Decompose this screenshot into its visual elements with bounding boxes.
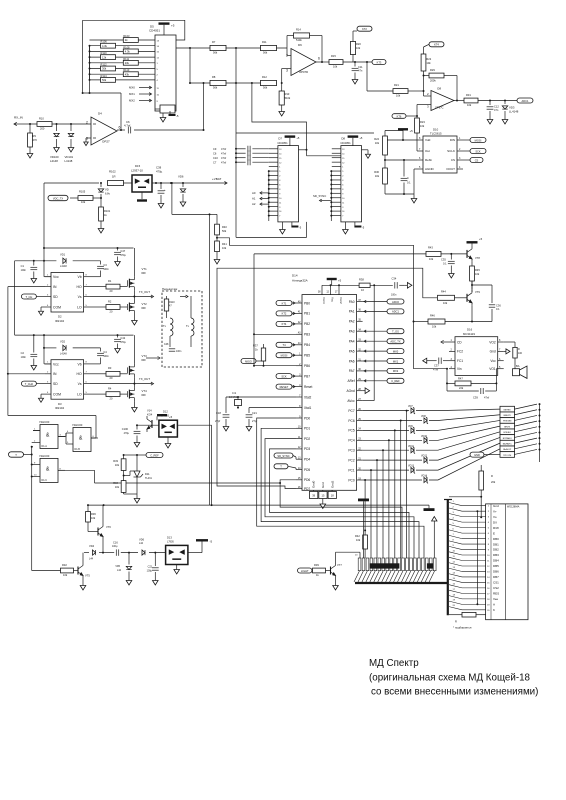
wire ladder common rail: [89, 46, 91, 80]
svg-text:C47: C47: [120, 249, 125, 253]
svg-text:R47: R47: [458, 376, 463, 380]
svg-text:GND: GND: [474, 453, 480, 457]
junction vs: [133, 296, 135, 298]
svg-text:200k: 200k: [430, 79, 436, 83]
capacitor C10 47nf sampling: [213, 155, 269, 161]
svg-text:6.8v: 6.8v: [105, 192, 111, 196]
svg-text:R43: R43: [428, 246, 433, 250]
svg-text:R39: R39: [314, 563, 319, 567]
junctions 5v rail: [87, 504, 213, 506]
node T_CH tag D2: [21, 294, 45, 299]
wire gate input bus: [32, 443, 33, 571]
svg-text:A1: A1: [252, 197, 256, 201]
svg-text:VD: VD: [105, 188, 109, 192]
svg-text:+5: +5: [479, 237, 483, 241]
junction pc VD9: [394, 429, 396, 431]
svg-text:L2937-10: L2937-10: [131, 168, 143, 172]
svg-text:R15: R15: [331, 54, 336, 58]
svg-text:PA5: PA5: [349, 349, 355, 353]
regulator D13 L7905: [166, 535, 188, 564]
svg-text:Cr1: Cr1: [232, 391, 237, 395]
svg-text:C21: C21: [252, 411, 257, 415]
svg-text:VD6: VD6: [178, 174, 184, 178]
junctions at x190: [189, 47, 205, 131]
svg-text:VD8: VD8: [421, 415, 426, 418]
ground D8 pin7: [343, 222, 349, 234]
svg-text:PC1: PC1: [348, 468, 354, 472]
svg-text:ВЫБОР: ВЫБОР: [503, 449, 512, 451]
svg-text:C12: C12: [494, 105, 499, 109]
node RESET tag MCU left: [276, 384, 296, 389]
svg-text:VT6: VT6: [106, 525, 111, 529]
svg-text:56k: 56k: [213, 85, 218, 89]
svg-text:VD14: VD14: [421, 475, 428, 478]
svg-text:IRF: IRF: [142, 358, 147, 362]
regulator D15 L2937-10: [131, 164, 152, 192]
svg-text:D13: D13: [167, 535, 172, 539]
junction pc VD7: [406, 410, 408, 412]
junctions ladder rail: [89, 45, 91, 81]
capacitor C18 27pf: [215, 397, 229, 424]
ground D13: [174, 565, 180, 575]
svg-text:VO2: VO2: [489, 340, 496, 344]
connector X1 pin header: [358, 558, 436, 571]
svg-text:E: E: [493, 531, 495, 535]
svg-text:PA4: PA4: [349, 340, 355, 344]
ground right of C34: [405, 283, 412, 289]
IC D3 IR2104 gate driver: [45, 360, 90, 411]
svg-text:AGND: AGND: [425, 167, 435, 171]
svg-text:VT7: VT7: [337, 563, 342, 567]
svg-text:PB6: PB6: [304, 364, 310, 368]
ground VT4 source: [132, 405, 138, 412]
svg-text:VDC_TX: VDC_TX: [53, 196, 64, 200]
svg-text:MX1: MX1: [129, 92, 135, 96]
wire R12 node to mux link: [252, 83, 307, 150]
junctions xtal: [237, 396, 239, 409]
svg-text:IRF: IRF: [142, 271, 147, 275]
svg-text:R44: R44: [441, 290, 446, 294]
svg-text:ADC0: ADC0: [392, 300, 399, 304]
svg-text:470µ: 470µ: [120, 341, 126, 344]
wire op-amp input net: [30, 123, 91, 125]
svg-text:IRF: IRF: [142, 306, 147, 310]
svg-text:100n: 100n: [176, 350, 182, 353]
svg-text:RESET: RESET: [280, 385, 289, 389]
svg-text:Vcc2: Vcc2: [339, 297, 343, 304]
junction r12 node: [251, 82, 253, 84]
svg-text:+5: +5: [410, 129, 414, 133]
svg-text:OP27: OP27: [102, 140, 110, 144]
inhibit box below D5: [155, 105, 175, 113]
svg-text:D11: D11: [145, 472, 150, 476]
svg-text:МД Спектр: МД Спектр: [369, 658, 419, 669]
svg-text:L44: L44: [117, 569, 122, 572]
svg-text:56k: 56k: [213, 50, 218, 54]
svg-text:ПРОСМ: ПРОСМ: [503, 455, 511, 457]
svg-text:OP97C: OP97C: [435, 105, 444, 109]
svg-text:R: R: [491, 474, 493, 478]
wire rail link left: [15, 261, 134, 335]
junctions sense: [171, 182, 218, 239]
capacitor C16 100u: [112, 540, 119, 555]
resistor R110 12k ladder row 4: [90, 51, 156, 59]
wire divider tap to audio net: [217, 238, 414, 369]
svg-text:R38: R38: [359, 278, 364, 282]
wire R33 R34 tap to D11: [124, 471, 134, 476]
wire PC drop x394.8: [394, 430, 396, 558]
svg-text:1R: 1R: [112, 174, 116, 178]
svg-text:47nf: 47nf: [433, 368, 438, 372]
transistor VT9: [467, 290, 480, 306]
svg-text:PD1: PD1: [304, 427, 310, 431]
svg-text:C2: C2: [21, 351, 25, 355]
wire PC0 drop with R42: [364, 480, 366, 558]
svg-text:VO1: VO1: [489, 367, 496, 371]
svg-text:R102: R102: [109, 169, 116, 173]
svg-text:L4148: L4148: [60, 265, 67, 268]
wire switched supply line: [84, 552, 166, 554]
arrow coupling pair: [180, 295, 188, 298]
node MX1 tag MCU right: [363, 359, 404, 364]
svg-text:C100: C100: [122, 427, 129, 431]
svg-text:PA0: PA0: [349, 300, 355, 304]
svg-text:MX2: MX2: [393, 369, 399, 373]
wire D6 pin3 net: [282, 69, 291, 84]
wire vertical from output to R7/R8: [190, 48, 204, 130]
zener VD13: [408, 465, 415, 474]
svg-text:V14: V14: [147, 409, 152, 413]
capacitor C38 470u: [156, 165, 166, 208]
svg-text:R23: R23: [420, 120, 425, 124]
wire Xtal1 net: [249, 407, 296, 409]
svg-text:20k: 20k: [491, 480, 496, 484]
logic gate D1.C 74HC00 NAND: [33, 454, 65, 482]
node T tag PD5: [274, 464, 296, 470]
node VDC_TX tag: [48, 195, 68, 200]
svg-text:VD6: VD6: [139, 537, 145, 541]
node DIN tag MOSI: [463, 138, 486, 143]
svg-text:R: R: [518, 348, 520, 351]
svg-text:30k: 30k: [102, 67, 107, 71]
junction c1: [33, 260, 35, 262]
svg-text:PD2: PD2: [304, 437, 310, 441]
svg-text:Xtal1: Xtal1: [304, 406, 311, 410]
node ADC_TX tag MCU right: [363, 339, 404, 344]
power +5 bar for D5: [159, 22, 175, 35]
connector buttons keypad: [500, 406, 515, 457]
supply -5 D7 pin8: [291, 222, 301, 230]
svg-text:C42: C42: [120, 336, 125, 340]
svg-text:PD5: PD5: [304, 468, 310, 472]
wire PD bus net y479.8: [280, 480, 402, 558]
diode VD5 L4148 to ground: [115, 553, 131, 585]
wire thick ground bus vertical: [444, 500, 452, 616]
svg-text:ADC_TX: ADC_TX: [390, 340, 401, 344]
svg-text:C_REF: C_REF: [391, 379, 400, 383]
svg-text:R/W: R/W: [493, 526, 499, 530]
wire AVcc branch: [363, 285, 375, 400]
svg-text:D15: D15: [135, 164, 141, 168]
svg-text:SCK: SCK: [281, 374, 287, 378]
diode VD3 LL4148: [502, 101, 518, 118]
svg-text:FC2: FC2: [457, 350, 463, 354]
junctions feedback: [82, 92, 122, 131]
wire O8 pin3 to R23 and DAC out: [417, 105, 431, 152]
node tag at R37 bottom: [241, 359, 264, 364]
junction pin3: [281, 82, 283, 84]
resistor R4 20 gate: [90, 387, 127, 401]
resistor R36 10k: [86, 505, 97, 531]
svg-text:A: A: [493, 603, 495, 607]
power bar near MCU bottom: [358, 499, 369, 559]
svg-text:TLC5615: TLC5615: [430, 132, 442, 136]
svg-text:74HC00: 74HC00: [72, 423, 83, 427]
supply -5 D8 pin8: [354, 222, 364, 230]
svg-text:43k: 43k: [125, 72, 130, 76]
svg-text:HO: HO: [77, 285, 82, 289]
svg-text:KT3: KT3: [377, 60, 382, 64]
svg-text:R12: R12: [262, 75, 267, 79]
ground COM D3: [38, 394, 45, 402]
op-amp O8 OP97C: [427, 87, 454, 111]
svg-text:0.1: 0.1: [407, 180, 411, 184]
svg-text:A2: A2: [252, 202, 256, 206]
ground VT5 emitter: [80, 583, 86, 590]
svg-text:10k: 10k: [432, 325, 437, 329]
resistor R32 10k: [32, 563, 78, 577]
resistor R30 10k: [374, 168, 387, 194]
node A1 tag: [252, 197, 269, 201]
IC D10 TLC5615 DAC: [417, 128, 463, 173]
svg-text:74HC00: 74HC00: [39, 420, 50, 424]
svg-text:Vo: Vo: [493, 515, 497, 519]
capacitor C36 0.1: [489, 303, 502, 321]
svg-text:R42: R42: [355, 534, 360, 538]
svg-text:PB1: PB1: [304, 312, 310, 316]
wire D8 out to ground stub: [362, 150, 371, 159]
svg-text:PB4: PB4: [304, 343, 310, 347]
svg-text:+: +: [164, 188, 166, 192]
capacitor C9 47nf sampling: [213, 146, 269, 152]
svg-text:PA7: PA7: [349, 369, 355, 373]
resistor R22 10k to KT4: [421, 54, 432, 71]
wire MCU left vertical bus x254: [253, 254, 255, 366]
svg-text:TX_OUT: TX_OUT: [139, 290, 150, 294]
resistor R31 10k: [464, 93, 478, 107]
svg-text:R20: R20: [356, 42, 361, 46]
svg-text:V+: V+: [493, 509, 497, 513]
svg-text:+5: +5: [338, 279, 342, 283]
svg-text:ВНИЗ: ВНИЗ: [504, 426, 511, 428]
node MX2 tag MCU right: [363, 368, 404, 373]
wire R46 net: [414, 321, 493, 323]
wire PC net VD11 row: [363, 432, 500, 450]
wire D4 output: [117, 129, 204, 131]
diode VD6b L4148: [139, 537, 145, 555]
ground C21: [246, 424, 252, 431]
svg-text:PC5: PC5: [348, 429, 354, 433]
svg-text:Gnd: Gnd: [490, 350, 496, 354]
junction pc0: [364, 479, 366, 531]
svg-text:DB5: DB5: [493, 564, 499, 568]
logic gate D1.A 74HC00 NAND: [33, 420, 65, 448]
capacitor C1 100n: [21, 261, 38, 283]
transistor VT2 IRF540 nmos: [127, 297, 147, 319]
wire long vertical signal bus x236: [235, 48, 237, 237]
IC D16 MC34119 audio amp: [449, 327, 504, 375]
resistor R20 10k pullup: [350, 31, 361, 62]
junction vo: [480, 496, 482, 519]
capacitor C48 100n coil: [164, 343, 182, 353]
wire gateB output to drivers IN: [8, 416, 96, 439]
wire MCU vcc top rail: [322, 284, 405, 286]
svg-text:MX2: MX2: [129, 99, 135, 103]
IC D2 IR2104 gate driver: [45, 273, 90, 324]
svg-text:DB3: DB3: [493, 553, 499, 557]
svg-text:R33: R33: [113, 459, 118, 463]
svg-text:470µ: 470µ: [124, 432, 130, 435]
svg-text:SD_SYNC: SD_SYNC: [277, 454, 289, 458]
svg-text:Vcc: Vcc: [53, 362, 59, 366]
wire IN net D3 from gates: [8, 287, 45, 416]
junction pc VD11: [382, 449, 384, 451]
IC D7 CD4051 analog mux: [269, 137, 299, 222]
svg-text:C7: C7: [213, 160, 217, 164]
ground D12: [165, 437, 171, 448]
svg-text:BA: BA: [516, 364, 520, 368]
resistor R46 10k: [428, 313, 445, 328]
wire Vs TX_OUT net D3: [90, 383, 152, 385]
svg-text:PC6: PC6: [348, 419, 354, 423]
logic gate D1.B 74HC00 NAND: [66, 423, 98, 451]
svg-text:CD4051: CD4051: [149, 29, 160, 33]
svg-text:10k: 10k: [467, 103, 472, 107]
svg-text:R1: R1: [108, 279, 112, 283]
svg-text:PB3: PB3: [304, 333, 310, 337]
node ADC2 output tag: [372, 60, 386, 65]
svg-text:KT1: KT1: [282, 301, 287, 305]
svg-text:Gnd0: Gnd0: [312, 480, 316, 488]
svg-text:D14: D14: [292, 273, 298, 277]
svg-text:RX_IN: RX_IN: [14, 116, 23, 120]
svg-text:10k: 10k: [81, 200, 86, 204]
svg-text:10k: 10k: [356, 538, 361, 542]
svg-text:PA6: PA6: [349, 359, 355, 363]
svg-text:Vcc: Vcc: [53, 275, 59, 279]
svg-text:L4148: L4148: [50, 159, 58, 163]
junctions mcu vcc: [330, 284, 376, 286]
junction gateC pd6: [279, 482, 281, 484]
capacitor C12 47n: [487, 101, 500, 118]
resistor R21 10k: [393, 83, 424, 97]
svg-text:VD4: VD4: [89, 544, 95, 548]
resistor R8 56k: [210, 75, 226, 89]
svg-text:R110: R110: [169, 301, 175, 304]
capacitor C3 100n bootstrap: [90, 261, 109, 277]
svg-text:10k: 10k: [443, 301, 448, 305]
wire RX to R7 R11 net: [176, 47, 287, 49]
junction zener R105: [100, 197, 102, 199]
svg-text:10k: 10k: [375, 174, 380, 178]
resistor R45 10k: [470, 262, 481, 289]
svg-text:Vcc: Vcc: [490, 359, 496, 363]
ground C35: [449, 271, 455, 278]
capacitor C2 100n: [21, 335, 38, 370]
ground DAC: [411, 194, 417, 203]
IC D14 ATmega32A microcontroller: [292, 273, 363, 498]
node A0 tag: [252, 191, 269, 195]
wire D6 output: [316, 61, 372, 63]
node C_REF tag MCU right: [363, 378, 404, 383]
svg-text:KT2: KT2: [282, 312, 287, 316]
svg-text:KO4: KO4: [147, 413, 153, 417]
svg-text:4.7nf: 4.7nf: [124, 124, 130, 128]
svg-text:56k: 56k: [263, 50, 268, 54]
wire PC drop x406.6: [406, 411, 408, 558]
svg-text:R13: R13: [285, 92, 290, 96]
svg-text:CS2: CS2: [493, 586, 499, 590]
junction c100: [136, 424, 138, 426]
diode VD2 bootstrap: [60, 340, 67, 356]
svg-text:VD1: VD1: [60, 253, 66, 257]
resistor R105 10k: [70, 190, 101, 205]
svg-text:Vb: Vb: [77, 362, 81, 366]
wire feedback loop from D5 output around top: [83, 20, 185, 40]
svg-text:Gnd: Gnd: [321, 482, 325, 488]
junction backlight: [476, 510, 478, 605]
svg-text:R112: R112: [101, 63, 108, 67]
svg-text:10k: 10k: [63, 573, 68, 577]
node SD_SYNC tag: [313, 194, 331, 202]
svg-text:R10: R10: [39, 117, 44, 121]
svg-text:100n: 100n: [21, 269, 27, 272]
svg-text:R34: R34: [113, 481, 118, 485]
junctions supply line: [102, 552, 156, 554]
zener VD11: [408, 445, 415, 454]
svg-text:Vcc: Vcc: [331, 297, 335, 303]
svg-text:C10: C10: [213, 156, 218, 160]
svg-text:D12: D12: [163, 410, 168, 414]
wire PC net VD14 row: [363, 449, 500, 480]
ground D15 bar: [137, 192, 147, 202]
node MX1 select input tag: [129, 92, 152, 96]
wire PD bus net y428.3: [261, 428, 419, 558]
svg-text:A0: A0: [252, 191, 256, 195]
junction r46: [413, 321, 415, 323]
svg-text:R2: R2: [108, 299, 112, 303]
IC D8 CD4051 analog mux: [332, 137, 362, 222]
junction audio out: [471, 284, 473, 286]
wire VT9 emitter down: [471, 306, 473, 322]
capacitor C100 470u: [122, 425, 141, 447]
svg-text:R111: R111: [123, 57, 129, 61]
junction vs2: [133, 383, 135, 385]
junctions sampling bus: [235, 148, 237, 163]
junction r33 r34 tap: [123, 475, 125, 477]
resistor R101 1k: [98, 198, 111, 233]
svg-text:22k: 22k: [459, 386, 464, 390]
capacitor C6 4.7nf: [124, 120, 131, 133]
svg-text:CD4051: CD4051: [277, 141, 288, 145]
svg-text:R103: R103: [123, 34, 130, 38]
wire PC net VD10 row: [363, 426, 500, 440]
resistor RTX inside coil box: [164, 296, 175, 318]
wire sense top tap: [210, 213, 218, 215]
svg-text:OP07D: OP07D: [299, 70, 308, 74]
svg-text:C1: C1: [21, 264, 25, 268]
svg-text:PC4: PC4: [348, 439, 354, 443]
